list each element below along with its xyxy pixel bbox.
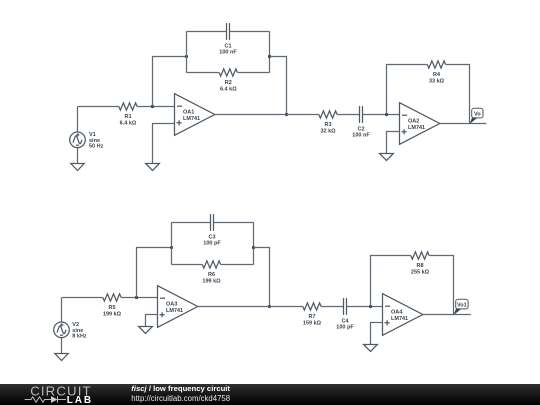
svg-text:100 pF: 100 pF <box>203 241 221 247</box>
R6 labels: R6 / 199 kΩ <box>202 272 221 285</box>
OA2 labels: OA2 / LM741 <box>408 119 425 131</box>
C1 labels: C1 / 100 nF <box>219 43 237 55</box>
voltage source V1 <box>70 107 86 164</box>
logo text LAB <box>67 395 93 405</box>
svg-text:OA1: OA1 <box>183 110 194 116</box>
wire R8 down to OA4 output <box>429 256 453 315</box>
wire V1 to R1 <box>78 106 119 108</box>
wire feedback down to OA3 output <box>254 248 270 307</box>
R1 labels: R1 / 6.4 kΩ <box>120 114 137 127</box>
wire top rail left of C1 <box>187 31 227 33</box>
wire top rail left of C3 <box>172 222 211 224</box>
wire bottom rail left of R2 <box>187 72 220 74</box>
footer background bar <box>0 384 540 405</box>
CircuitLab logo text CIRCUIT <box>30 384 92 399</box>
feedback box right vertical wire <box>253 223 255 265</box>
resistor R5 <box>103 294 121 301</box>
wire OA3 output to R7 <box>198 306 303 308</box>
wire R5 to OA3 inverting input <box>121 297 157 299</box>
svg-text:OA2: OA2 <box>408 119 419 125</box>
wire top rail right of C3 <box>214 222 254 224</box>
svg-text:8 kHz: 8 kHz <box>72 333 87 339</box>
svg-text:OA4: OA4 <box>391 310 403 316</box>
wire junction up to feedback network <box>153 57 187 107</box>
wire bottom rail left of R6 <box>172 264 203 266</box>
svg-text:6.4 kΩ: 6.4 kΩ <box>120 121 137 127</box>
wire OA1 non-inverting input to ground <box>153 124 175 164</box>
svg-text:C2: C2 <box>357 126 364 132</box>
wire feedback down to OA1 output <box>270 57 287 115</box>
ground at OA1 + input <box>146 164 160 171</box>
svg-text:C3: C3 <box>208 234 215 240</box>
C3 labels: C3 / 100 pF <box>203 234 221 246</box>
ground at OA4 + input <box>364 345 378 352</box>
wire C2 to OA2 inverting input <box>363 114 400 116</box>
ground below V1 <box>71 164 84 171</box>
resistor R1 <box>119 103 137 110</box>
svg-text:R2: R2 <box>225 80 232 86</box>
ground below V2 <box>55 354 68 361</box>
R8 labels: R8 / 255 kΩ <box>411 263 430 276</box>
footer url <box>131 394 230 403</box>
svg-text:R8: R8 <box>416 263 423 269</box>
junction dot on feedback box right <box>252 246 255 249</box>
capacitor C4 <box>344 298 347 315</box>
R3 labels: R3 / 32 kΩ <box>320 122 336 135</box>
svg-text:199 kΩ: 199 kΩ <box>103 312 122 318</box>
wire R3 to C2 <box>337 114 359 116</box>
svg-text:C1: C1 <box>224 43 231 49</box>
svg-text:100 nF: 100 nF <box>352 133 370 139</box>
junction node R5/OA3/feedback <box>135 296 138 299</box>
junction dot on feedback box right <box>268 55 271 58</box>
R5 labels: R5 / 199 kΩ <box>103 305 122 318</box>
junction dot on feedback box left <box>170 246 173 249</box>
ground at OA3 + input <box>139 327 153 334</box>
junction node OA4 input/feedback <box>369 305 372 308</box>
R7 labels: R7 / 159 kΩ <box>303 314 322 327</box>
svg-text:33 kΩ: 33 kΩ <box>429 79 445 85</box>
R4 labels: R4 / 33 kΩ <box>429 72 445 85</box>
footer title: fiscj / low frequency circuit <box>131 384 230 393</box>
svg-text:LM741: LM741 <box>408 125 425 131</box>
capacitor C2 <box>360 106 363 123</box>
junction dot on feedback box left <box>185 55 188 58</box>
wire bottom rail right of R6 <box>221 264 254 266</box>
wire OA1 output to R3 <box>215 114 319 116</box>
svg-text:fiscj / low frequency circuit: fiscj / low frequency circuit <box>131 384 230 393</box>
capacitor C1 <box>227 23 230 40</box>
wire C4 to OA4 inverting input <box>347 306 383 308</box>
svg-text:R5: R5 <box>108 305 115 311</box>
C2 labels: C2 / 100 nF <box>352 126 370 138</box>
feedback box right vertical wire <box>269 32 271 73</box>
wire OA4 non-inverting input to ground <box>371 323 383 345</box>
node Vo output flag <box>470 108 484 124</box>
wire V2 to R5 <box>62 297 103 299</box>
svg-text:http://circuitlab.com/ckd4758: http://circuitlab.com/ckd4758 <box>131 394 230 403</box>
wire R7 to C4 <box>321 306 343 308</box>
svg-text:255 kΩ: 255 kΩ <box>411 270 430 276</box>
svg-text:199 kΩ: 199 kΩ <box>202 279 221 285</box>
ground at OA2 + input <box>380 154 394 161</box>
svg-text:OA3: OA3 <box>166 302 177 308</box>
wire OA3 non-inverting input to ground <box>146 315 158 327</box>
voltage source V2 <box>54 298 70 354</box>
wire junction up to R8 <box>371 256 411 307</box>
svg-text:50 Hz: 50 Hz <box>89 143 104 149</box>
op-amp OA3 <box>158 286 198 328</box>
op-amp OA2 <box>400 103 440 145</box>
logo diode symbol <box>51 396 66 403</box>
svg-text:100 pF: 100 pF <box>336 325 354 331</box>
feedback box left vertical wire <box>171 223 173 265</box>
svg-text:C4: C4 <box>341 318 349 324</box>
resistor R2 <box>219 69 237 76</box>
svg-text:100 nF: 100 nF <box>219 50 237 56</box>
svg-text:LM741: LM741 <box>183 116 200 122</box>
wire R4 down to OA2 output <box>446 65 470 124</box>
wire OA4 output to Vo1 <box>423 314 471 316</box>
resistor R8 <box>411 252 429 259</box>
junction dot feedback/OA1 output <box>285 113 288 116</box>
OA4 labels: OA4 / LM741 <box>391 310 408 322</box>
op-amp OA1 <box>175 94 215 136</box>
svg-text:LM741: LM741 <box>391 316 408 322</box>
wire junction up to feedback network <box>137 248 172 298</box>
R2 labels: R2 / 6.4 kΩ <box>220 80 237 93</box>
OA3 labels: OA3 / LM741 <box>166 302 183 314</box>
svg-text:32 kΩ: 32 kΩ <box>320 129 336 135</box>
wire OA2 output to Vo <box>440 123 487 125</box>
V2 labels: V2 / sine / 8 kHz <box>72 322 87 339</box>
OA1 labels: OA1 / LM741 <box>183 110 200 122</box>
logo schematic line with resistor <box>25 397 52 402</box>
svg-text:Vo1: Vo1 <box>457 302 467 308</box>
svg-text:R4: R4 <box>433 72 441 78</box>
svg-text:LAB: LAB <box>67 395 93 405</box>
resistor R4 <box>427 61 445 68</box>
resistor R3 <box>319 111 337 118</box>
junction node OA2 input/feedback <box>385 113 388 116</box>
wire OA2 non-inverting input to ground <box>387 132 400 154</box>
svg-text:Vo: Vo <box>474 111 481 117</box>
wire bottom rail right of R2 <box>237 72 269 74</box>
node Vo1 output flag <box>454 299 469 315</box>
V1 labels: V1 / sine / 50 Hz <box>89 132 104 149</box>
C4 labels: C4 / 100 pF <box>336 318 354 330</box>
resistor R6 <box>202 261 220 268</box>
svg-text:R3: R3 <box>324 122 331 128</box>
wire top rail right of C1 <box>230 31 270 33</box>
svg-text:159 kΩ: 159 kΩ <box>303 321 322 327</box>
wire R1 to OA1 inverting input <box>137 106 174 108</box>
junction node R1/OA1/feedback <box>151 105 154 108</box>
svg-text:6.4 kΩ: 6.4 kΩ <box>220 87 237 93</box>
svg-text:R6: R6 <box>208 272 215 278</box>
svg-text:R1: R1 <box>124 114 131 120</box>
capacitor C3 <box>211 214 214 231</box>
resistor R7 <box>303 303 321 310</box>
feedback box left vertical wire <box>186 32 188 73</box>
wire junction up to R4 <box>387 65 428 115</box>
op-amp OA4 <box>383 294 423 336</box>
svg-text:R7: R7 <box>308 314 315 320</box>
svg-text:LM741: LM741 <box>166 308 183 314</box>
junction dot feedback/OA3 output <box>268 305 271 308</box>
